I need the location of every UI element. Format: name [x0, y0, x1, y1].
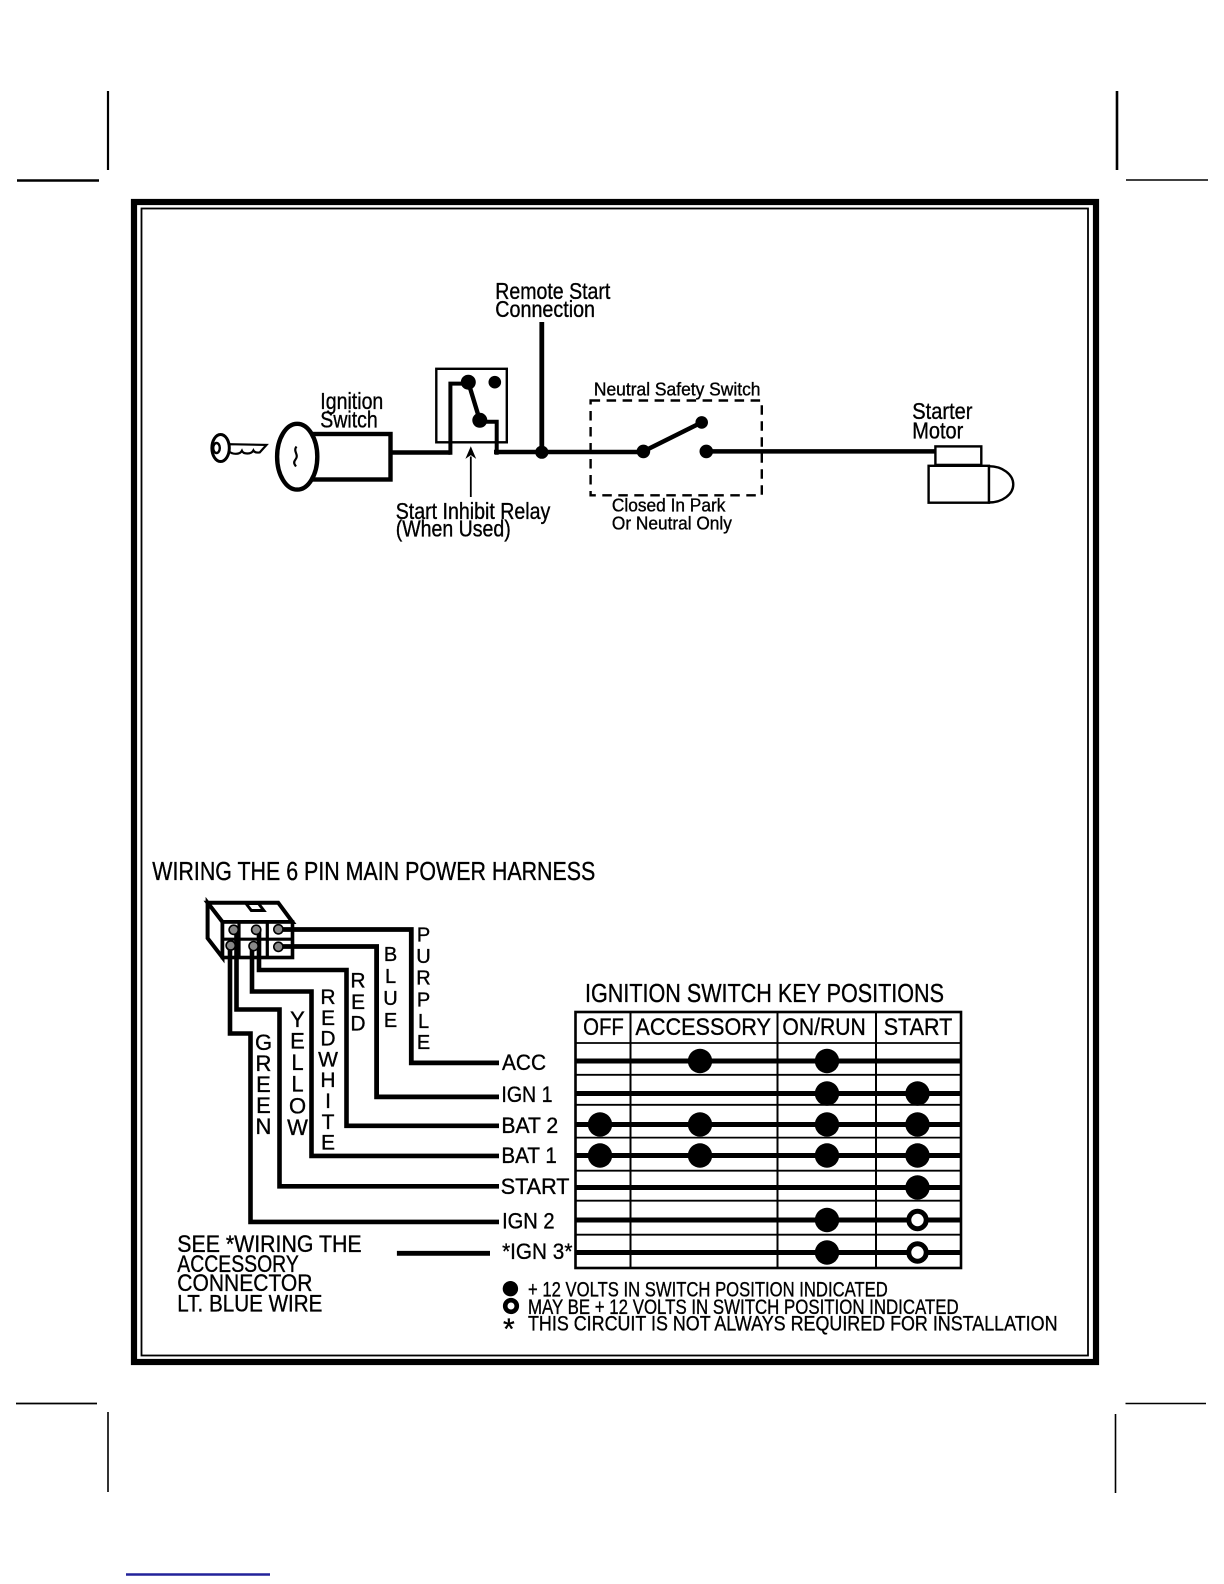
svg-text:L: L [418, 1011, 429, 1033]
svg-text:IGNITION SWITCH KEY POSITIONS: IGNITION SWITCH KEY POSITIONS [585, 978, 944, 1008]
label: SEE WIRING THE ACCESSORY CONNECTOR LT. BLUE WIRE [177, 1231, 361, 1318]
svg-text:*IGN 3*: *IGN 3* [502, 1239, 573, 1264]
node remote start junction [535, 446, 548, 459]
label: PURPLE [416, 925, 430, 1055]
svg-text:ACC: ACC [502, 1050, 546, 1075]
label: Closed In Park Or Neutral Only [612, 496, 732, 534]
svg-text:D: D [350, 1013, 365, 1036]
svg-text:BAT 2: BAT 2 [501, 1113, 558, 1138]
svg-text:T: T [322, 1111, 335, 1134]
svg-text:Or Neutral Only: Or Neutral Only [612, 514, 732, 534]
svg-text:I: I [325, 1090, 331, 1113]
wire relay to neutral safety switch [494, 450, 643, 455]
arrow to relay [465, 446, 476, 497]
node IGN3 start hollow dot [909, 1244, 926, 1261]
label: Start Inhibit Relay (When Used) [396, 498, 551, 541]
svg-text:WIRING THE 6 PIN MAIN POWER HA: WIRING THE 6 PIN MAIN POWER HARNESS [152, 856, 595, 886]
svg-text:E: E [321, 1007, 335, 1030]
label: YELLOW [287, 1007, 308, 1140]
svg-text:START: START [501, 1174, 570, 1199]
neutral safety switch dashed box [591, 401, 762, 496]
node ACC accessory dot [688, 1049, 712, 1073]
svg-text:Motor: Motor [912, 418, 963, 444]
wire IGN 3 stub [397, 1251, 490, 1256]
starter motor M1 [929, 446, 1014, 502]
node IGN2 start hollow dot [909, 1211, 926, 1228]
svg-text:W: W [318, 1048, 338, 1071]
svg-text:B: B [384, 944, 397, 966]
svg-text:E: E [384, 1010, 397, 1032]
svg-text:Closed In Park: Closed In Park [612, 496, 726, 516]
svg-text:L: L [385, 966, 396, 988]
svg-text:THIS CIRCUIT IS NOT ALWAYS REQ: THIS CIRCUIT IS NOT ALWAYS REQUIRED FOR … [528, 1313, 1058, 1336]
svg-text:E: E [321, 1132, 335, 1155]
svg-text:ON/RUN: ON/RUN [782, 1014, 865, 1041]
svg-text:W: W [287, 1115, 308, 1140]
node IGN2 on/run dot [815, 1208, 839, 1232]
table ignition switch key positions grid [576, 1012, 962, 1268]
svg-text:R: R [416, 968, 430, 990]
label: REDWHITE [318, 986, 338, 1155]
connector J1 6-pin main power harness [208, 903, 293, 958]
wire redwhite BAT 1 [252, 947, 499, 1156]
wire BAT 1 row line [576, 1153, 962, 1158]
svg-text:IGN 1: IGN 1 [501, 1082, 552, 1107]
node IGN3 on/run dot [815, 1240, 839, 1264]
svg-text:Connection: Connection [495, 296, 595, 322]
svg-text:(When Used): (When Used) [396, 515, 511, 541]
svg-text:R: R [320, 986, 335, 1009]
svg-text:U: U [416, 946, 430, 968]
svg-text:ACCESSORY: ACCESSORY [635, 1014, 771, 1041]
wire IGN 2 row line [576, 1218, 962, 1223]
svg-text:N: N [256, 1114, 272, 1139]
svg-text:P: P [417, 925, 430, 947]
node BAT2 start dot [905, 1112, 929, 1136]
node IGN1 on/run dot [815, 1081, 839, 1105]
svg-text:E: E [417, 1032, 430, 1054]
svg-text:START: START [884, 1014, 953, 1041]
label: BLUE [383, 944, 397, 1032]
wire remote start connection vertical [539, 322, 544, 452]
legend hollow dot symbol [505, 1300, 517, 1312]
key icon [212, 435, 267, 462]
svg-text:Neutral Safety Switch: Neutral Safety Switch [594, 379, 761, 399]
svg-text:R: R [350, 970, 365, 993]
label: Remote Start Connection [495, 278, 611, 322]
svg-text:D: D [320, 1028, 335, 1051]
svg-text:BAT 1: BAT 1 [501, 1143, 556, 1168]
node BAT1 off dot [588, 1143, 612, 1167]
node BAT1 accessory dot [688, 1143, 712, 1167]
relay K1 start inhibit relay [436, 369, 507, 455]
legend filled dot symbol [503, 1281, 518, 1296]
label: Ignition Switch [320, 388, 383, 433]
node ACC on/run dot [815, 1049, 839, 1073]
wire START row line [576, 1185, 962, 1190]
node BAT2 accessory dot [688, 1112, 712, 1136]
node BAT1 start dot [905, 1143, 929, 1167]
neutral safety switch contacts [637, 417, 712, 458]
wire purple ACC [278, 930, 499, 1063]
svg-text:Switch: Switch [320, 407, 378, 433]
node BAT1 on/run dot [815, 1143, 839, 1167]
svg-text:P: P [417, 989, 430, 1011]
wire ignition switch to relay [391, 450, 451, 455]
node START start dot [905, 1175, 929, 1199]
label: RED [350, 970, 365, 1036]
svg-text:LT. BLUE WIRE: LT. BLUE WIRE [177, 1291, 322, 1318]
svg-text:H: H [320, 1069, 335, 1092]
wire IGN 3 row line [576, 1250, 962, 1255]
label: GREEN [255, 1030, 272, 1139]
wire yellow START [237, 930, 500, 1187]
wire ACC row line [576, 1059, 962, 1064]
node BAT2 on/run dot [815, 1112, 839, 1136]
ignition switch SW1 [277, 424, 390, 490]
svg-text:OFF: OFF [583, 1014, 624, 1041]
label: Starter Motor [912, 398, 972, 444]
svg-text:IGN 2: IGN 2 [502, 1208, 554, 1233]
wire neutral safety switch to starter motor [706, 449, 935, 454]
svg-text:U: U [383, 988, 397, 1010]
wire blue IGN 1 [278, 947, 499, 1097]
connector J1 pins [226, 925, 283, 952]
node BAT2 off dot [588, 1112, 612, 1136]
svg-text:*: * [503, 1313, 515, 1346]
wire red BAT 2 [259, 930, 499, 1126]
wire green IGN 2 [230, 947, 499, 1222]
svg-text:E: E [351, 991, 365, 1014]
node IGN1 start dot [905, 1081, 929, 1105]
wire IGN 1 row line [576, 1091, 962, 1096]
wire BAT 2 row line [576, 1122, 962, 1127]
